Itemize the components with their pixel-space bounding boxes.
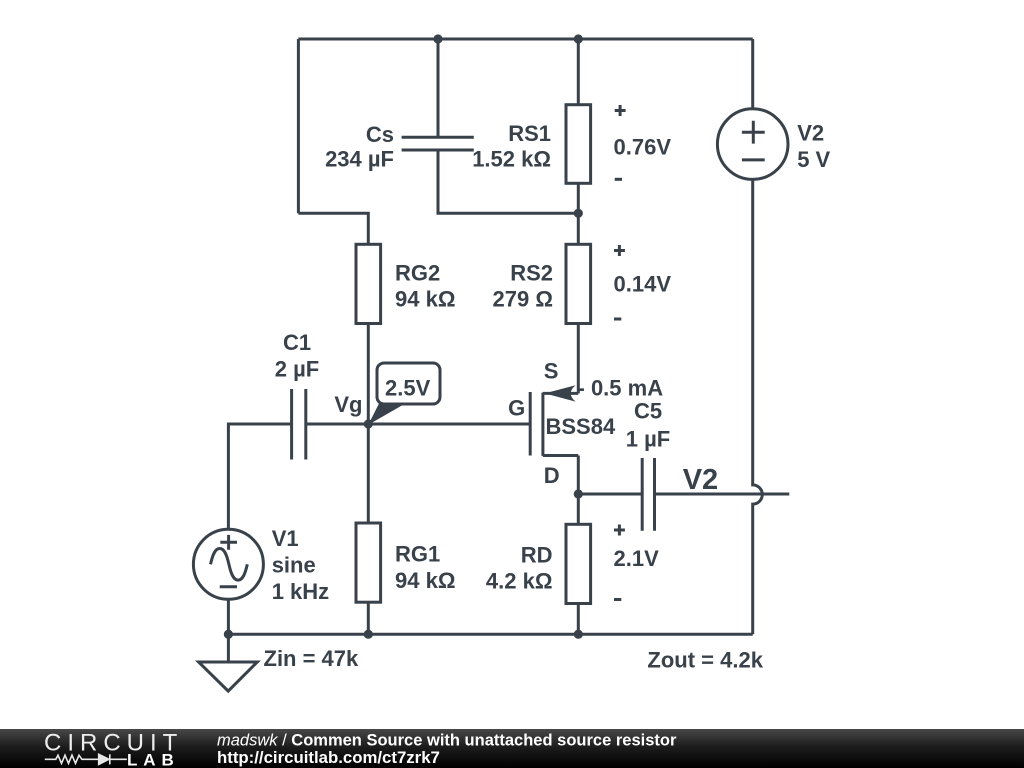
wire bottom rail	[228, 633, 752, 636]
svg-text:4.2 kΩ: 4.2 kΩ	[486, 569, 553, 594]
resistor RS2	[493, 244, 591, 323]
svg-text:2.1V: 2.1V	[614, 546, 660, 571]
junction dot bottom V1	[224, 630, 233, 639]
source lead	[543, 392, 578, 395]
voltage label RS2	[614, 245, 672, 319]
voltage source V1	[193, 526, 329, 604]
voltage label RD	[614, 525, 660, 600]
capacitor C5	[626, 399, 670, 531]
wire V1 bottom	[227, 599, 230, 634]
svg-text:2 µF: 2 µF	[275, 357, 319, 382]
wire drain to C5	[578, 493, 642, 496]
svg-text:RD: RD	[521, 543, 553, 568]
svg-text:RG1: RG1	[395, 542, 440, 567]
wire to RG2 top	[298, 213, 368, 244]
wire gate	[368, 423, 530, 426]
svg-text:LAB: LAB	[127, 750, 180, 768]
svg-text:V2: V2	[683, 464, 718, 496]
wire top rail	[298, 38, 752, 41]
svg-text:BSS84: BSS84	[546, 414, 616, 439]
svg-text:madswk / Commen Source with un: madswk / Commen Source with unattached s…	[217, 732, 677, 750]
svg-text:1 kHz: 1 kHz	[272, 579, 329, 604]
ground	[199, 634, 258, 691]
resistor RG2	[356, 244, 455, 323]
gate bar	[529, 392, 532, 456]
wire RS2 to source	[577, 324, 580, 394]
svg-text:C5: C5	[634, 399, 662, 424]
svg-text:1 µF: 1 µF	[626, 427, 670, 452]
sine wave	[211, 549, 248, 581]
svg-text:http://circuitlab.com/ct7zrk7: http://circuitlab.com/ct7zrk7	[217, 748, 440, 767]
wire top right	[751, 39, 754, 109]
junction dot bottom RG1	[364, 630, 373, 639]
svg-text:RG2: RG2	[395, 261, 440, 286]
svg-text:- 0.5 mA: - 0.5 mA	[578, 376, 664, 401]
callout 2.5V	[368, 363, 440, 425]
svg-text:RS1: RS1	[508, 121, 551, 146]
wire left drop	[297, 39, 300, 213]
svg-text:279 Ω: 279 Ω	[493, 287, 553, 312]
svg-text:C1: C1	[283, 330, 311, 355]
svg-text:S: S	[544, 358, 559, 383]
wire RS2 top	[577, 213, 580, 244]
svg-text:0.14V: 0.14V	[614, 272, 672, 297]
svg-text:234 µF: 234 µF	[325, 147, 394, 172]
wire right rail with hop	[753, 179, 763, 634]
svg-text:5 V: 5 V	[797, 147, 830, 172]
svg-text:G: G	[508, 395, 525, 420]
channel bar	[541, 393, 544, 456]
svg-text:Vg: Vg	[334, 392, 362, 417]
wire V1 top to C1	[228, 424, 291, 529]
transistor Q1 BSS84	[368, 358, 616, 494]
junction dot top Cs	[433, 34, 442, 43]
wire RS1 top	[577, 39, 580, 105]
resistor RG1	[356, 523, 455, 634]
wire RG2 to Vg	[367, 324, 370, 425]
svg-text:Zout = 4.2k: Zout = 4.2k	[647, 648, 763, 673]
wire drain down	[577, 456, 580, 495]
svg-text:D: D	[544, 463, 560, 488]
wire Cs top branch	[437, 39, 440, 137]
svg-text:sine: sine	[272, 552, 316, 577]
capacitor Cs	[325, 122, 474, 172]
wire C1 to Vg	[306, 423, 369, 426]
junction dot top RS1	[574, 34, 583, 43]
drain lead	[543, 454, 578, 457]
svg-text:94 kΩ: 94 kΩ	[395, 287, 455, 312]
junction dot bottom RD	[574, 630, 583, 639]
voltage label RS1	[614, 105, 672, 179]
svg-text:0.76V: 0.76V	[614, 135, 672, 160]
svg-text:Cs: Cs	[366, 122, 394, 147]
wire RS1 bottom	[577, 183, 580, 213]
wire C5 to output	[655, 493, 790, 496]
svg-text:94 kΩ: 94 kΩ	[395, 568, 455, 593]
voltage source V2	[717, 109, 830, 180]
resistor RD	[486, 494, 591, 634]
wire Cs bottom	[438, 150, 578, 213]
node drain dot	[574, 489, 583, 498]
junction dot RS1/RS2	[574, 209, 583, 218]
logo zigzag diode	[45, 754, 127, 764]
footer bar	[0, 729, 1024, 768]
wire RG1 top	[367, 424, 370, 523]
svg-text:Zin = 47k: Zin = 47k	[264, 646, 360, 671]
svg-text:1.52 kΩ: 1.52 kΩ	[472, 147, 551, 172]
svg-text:RS2: RS2	[510, 261, 553, 286]
source arrow	[545, 385, 576, 401]
svg-text:V1: V1	[272, 526, 299, 551]
svg-text:V2: V2	[797, 120, 824, 145]
node Vg dot	[364, 419, 373, 428]
capacitor C1	[275, 330, 319, 460]
svg-text:2.5V: 2.5V	[385, 376, 431, 401]
resistor RS1	[472, 105, 590, 184]
